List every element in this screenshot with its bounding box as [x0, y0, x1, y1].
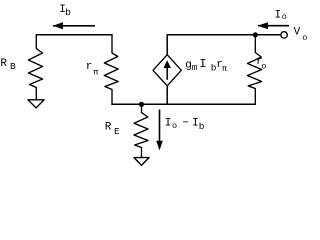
svg-text:B: B — [10, 61, 16, 72]
svg-text:o: o — [261, 62, 266, 72]
svg-text:g: g — [185, 59, 192, 71]
svg-text:π: π — [222, 64, 227, 74]
svg-text:I: I — [275, 10, 282, 22]
svg-text:I: I — [192, 118, 199, 130]
svg-text:R: R — [0, 58, 7, 70]
svg-text:b: b — [199, 121, 205, 132]
svg-text:r: r — [86, 61, 93, 73]
svg-text:o: o — [302, 33, 307, 43]
svg-text:I: I — [165, 118, 172, 130]
svg-text:I: I — [199, 57, 206, 71]
svg-text:o: o — [172, 121, 177, 131]
svg-text:−: − — [182, 118, 189, 130]
svg-text:E: E — [114, 126, 120, 137]
svg-text:π: π — [93, 68, 98, 78]
svg-text:m: m — [192, 63, 197, 73]
svg-text:V: V — [294, 27, 301, 39]
svg-text:R: R — [105, 122, 112, 134]
svg-text:b: b — [65, 7, 71, 18]
svg-text:o: o — [282, 12, 287, 22]
